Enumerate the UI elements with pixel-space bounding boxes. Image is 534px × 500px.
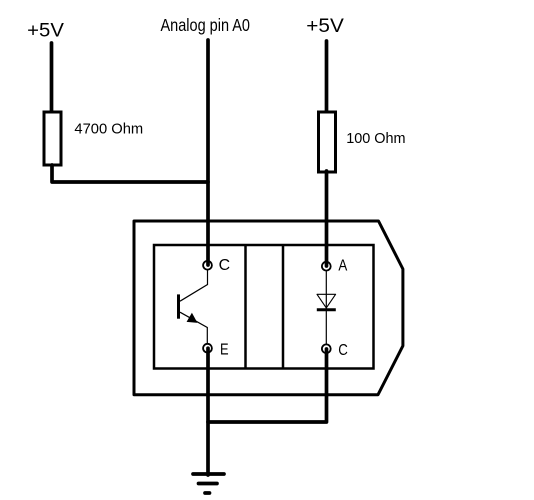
resistor R2 100 Ohm xyxy=(319,112,336,172)
svg-text:Analog pin A0: Analog pin A0 xyxy=(161,15,251,35)
wire from R1 bottom to analog net xyxy=(52,165,208,182)
pin C (LED cathode) circle xyxy=(322,344,331,353)
LED D1 triangle xyxy=(317,294,336,308)
wire from left +5V to R1 xyxy=(50,43,54,112)
opto-coupler U1 body outline xyxy=(134,221,403,395)
opto-coupler U1 inner box xyxy=(154,245,374,369)
resistor R1 4700 Ohm xyxy=(44,112,61,165)
transistor Q1 collector lead xyxy=(180,270,208,301)
svg-text:C: C xyxy=(338,342,348,359)
svg-text:100 Ohm: 100 Ohm xyxy=(346,130,405,147)
svg-text:4700 Ohm: 4700 Ohm xyxy=(74,121,143,138)
pin E (transistor emitter) circle xyxy=(203,344,212,353)
transistor Q1 emitter arrow xyxy=(187,314,196,322)
pin A (LED anode) circle xyxy=(322,262,331,271)
transistor Q1 base bar xyxy=(177,294,180,318)
transistor Q1 emitter lead xyxy=(180,312,207,344)
wire from R2 bottom to opto pin A xyxy=(325,171,329,266)
wire from pin E down to ground xyxy=(206,348,210,475)
svg-text:+5V: +5V xyxy=(306,16,344,37)
wire from LED cathode to ground net xyxy=(208,349,327,422)
svg-text:C: C xyxy=(219,257,231,274)
inner divider line (left) xyxy=(244,245,247,369)
wire from right +5V to R2 xyxy=(325,41,329,112)
svg-text:+5V: +5V xyxy=(27,20,64,41)
LED D1 cathode bar xyxy=(317,308,336,311)
ground symbol xyxy=(193,474,224,493)
LED D1 anode-cathode lead xyxy=(325,271,327,345)
svg-text:A: A xyxy=(338,257,347,274)
pin C (transistor collector) circle xyxy=(203,261,212,270)
inner divider line (right) xyxy=(282,245,285,369)
wire Analog pin A0 down to opto pin C xyxy=(206,40,210,265)
svg-text:E: E xyxy=(220,342,229,359)
